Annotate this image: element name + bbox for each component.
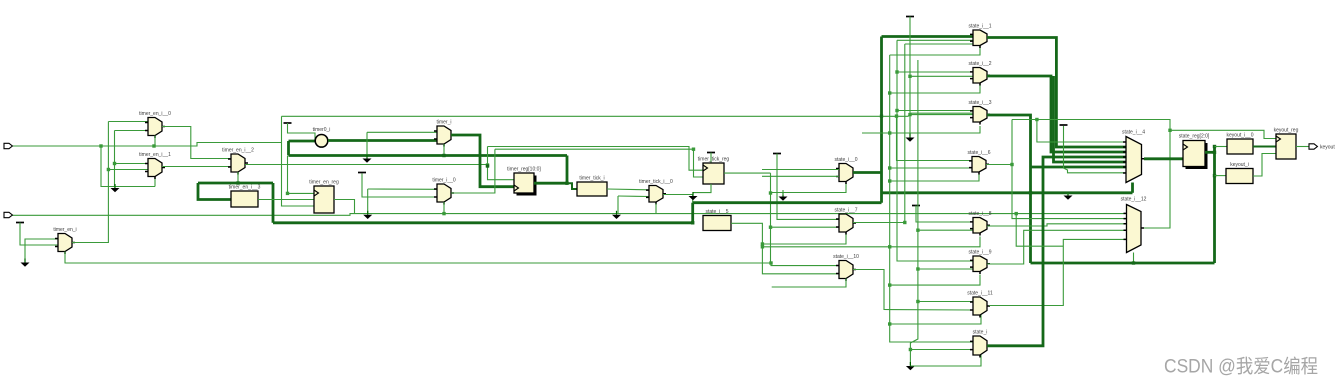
wire net tick0 out (663, 195, 693, 203)
wire bus y203 (693, 201, 882, 204)
wire net s0 p2 (762, 175, 839, 177)
wire net y119 (1012, 120, 1170, 131)
mux state_i__9 (968, 250, 991, 275)
wire net timeri0 sel (443, 202, 445, 214)
wire net s2 sel (890, 84, 980, 93)
wire net s4 thin p0 (1037, 120, 1126, 143)
wire net mux1 out (162, 166, 231, 168)
wire net s1 sel (890, 45, 980, 55)
wire bus k0 out (1253, 146, 1276, 148)
junction sregout (1213, 151, 1216, 154)
wire net treg fb y149 (495, 149, 703, 177)
wire bus y193 sel4 (1131, 183, 1134, 193)
wire net sel timer_en y263 (65, 262, 772, 264)
wire net tickreg bot (693, 184, 711, 195)
junction clk-x1016 (1015, 212, 1018, 215)
wire bus en3 loop left (198, 183, 231, 200)
constant tie-off t4 (773, 153, 781, 155)
junction y116-x881 (880, 114, 883, 117)
wire net t6 stem (916, 206, 973, 223)
constant tie-off t2 (284, 122, 292, 124)
wire net s9 sel (890, 275, 980, 286)
wire net s3 p1 (897, 110, 973, 112)
register timer_tick_i (577, 176, 607, 197)
junction vA168 (888, 166, 891, 169)
svg-text:timer_en_i: timer_en_i (53, 227, 76, 233)
ground g4 (363, 211, 372, 219)
register timer_en_reg (309, 180, 339, 214)
wire net s6 p1 riser (897, 116, 973, 160)
ground g1 (111, 184, 120, 192)
svg-text:timer_tick_reg: timer_tick_reg (698, 157, 730, 163)
wire net v367b (367, 189, 369, 214)
port output keyout (1309, 144, 1335, 151)
wire bus y36 to s1 (882, 35, 974, 38)
wire bus main y223 (273, 221, 693, 224)
constant tie-off t1 (16, 222, 24, 224)
wire net tick p2 drop (617, 196, 619, 214)
wire bus timer0 out (328, 139, 437, 142)
junction vD269 (916, 267, 919, 270)
junction din1-x154 (152, 144, 155, 147)
svg-text:state_i__5: state_i__5 (705, 209, 728, 215)
wire bus y263 right (1031, 262, 1215, 265)
svg-text:keyout_i__0: keyout_i__0 (1227, 133, 1254, 139)
mux state_i__3 (968, 100, 991, 125)
ground g7 (779, 193, 788, 201)
wire net tickreg out (724, 172, 771, 174)
ground g9 (906, 362, 915, 370)
wire net v1170 (1141, 130, 1170, 228)
wire net s9 out (987, 230, 1126, 264)
wire net s11 p1 (918, 301, 973, 303)
junction v770-227 (769, 226, 772, 229)
wire net enreg p1 riser (288, 156, 315, 193)
svg-text:state_i__0: state_i__0 (834, 157, 857, 163)
wire net s8 out (987, 224, 1126, 226)
junction y116-x896 (895, 114, 898, 117)
wire bus timer0 left (289, 140, 316, 143)
wire net en p2 elbow (115, 130, 149, 132)
wire net k1 in (1215, 175, 1227, 177)
wire bus en3 loop top (198, 182, 273, 185)
junction b193x1030 (1029, 191, 1032, 194)
junction vA181 (888, 179, 891, 182)
wire net vA x889 (890, 55, 973, 342)
junction vA326 (888, 322, 891, 325)
junction vA285 (888, 283, 891, 286)
junction v762-263 (769, 261, 772, 264)
wire net s7 sel (762, 233, 846, 245)
wire bus s0 out (853, 171, 882, 174)
junction enregp1 (286, 192, 289, 195)
wire net s11 sel (890, 314, 981, 324)
wire net en out (72, 242, 108, 244)
junction y119-x1036 (1035, 118, 1038, 121)
port input din1 (4, 143, 12, 148)
svg-text:state_i__3: state_i__3 (968, 100, 991, 106)
wire bus s2 out (987, 76, 1126, 152)
wire net v770 (770, 173, 772, 263)
register keyout_i (1226, 162, 1253, 184)
wire net mux1 sel (154, 176, 156, 187)
ground g5 (612, 211, 621, 219)
junction vA246 (888, 245, 891, 248)
wire bus v692 (691, 203, 694, 223)
wire net s8 p2 (918, 229, 973, 231)
wire net s5 out (731, 223, 839, 273)
junction t0sel (442, 212, 445, 215)
ground g3 (363, 155, 372, 163)
wire net keyout (1296, 146, 1309, 148)
wire net tick out (607, 188, 649, 191)
wire net s10 sel (772, 279, 846, 288)
mux timer_tick_i__0 (639, 179, 673, 205)
mux state_i__11 (967, 291, 993, 318)
register keyout_i__0 (1227, 133, 1254, 155)
junction vD301 (916, 300, 919, 303)
junction vA130 (888, 131, 891, 134)
wire net s8 sel (762, 237, 980, 247)
svg-text:keyout: keyout (1320, 145, 1335, 151)
junction vB72 (895, 70, 898, 73)
wire net s12 sel (1133, 253, 1135, 264)
svg-text:timer_en_i__1: timer_en_i__1 (139, 152, 171, 158)
wire net mux0 sel (154, 136, 156, 147)
register keyout_reg (1274, 128, 1299, 160)
svg-text:state_i__12: state_i__12 (1121, 197, 1147, 203)
ground g2 (21, 259, 30, 267)
wire net treg fb v487 (488, 147, 515, 180)
wire bus s2 out branch (1054, 76, 1127, 162)
wire net timer0 top y116 (282, 113, 974, 116)
wire net en p1 (25, 239, 58, 262)
mux state_i__6 (967, 150, 990, 175)
wire net s6 out (986, 164, 1012, 166)
ground g8 (906, 134, 915, 142)
wire bus y155 (289, 154, 568, 157)
wire net s7 p2 (771, 226, 840, 228)
svg-text:state_i__6: state_i__6 (967, 150, 990, 156)
constant tie-off t8 (358, 172, 366, 174)
wire net t7 stem (1064, 126, 1127, 173)
register timer_reg[10:0] (507, 167, 541, 196)
junction k1in (1213, 174, 1216, 177)
wire net s2 p1 (897, 71, 973, 73)
wire net clk branch v1016 (1016, 214, 1063, 247)
wire net y130 right (1170, 130, 1276, 138)
wire net vB x897 (897, 40, 973, 261)
svg-text:state_i__8: state_i__8 (968, 211, 991, 217)
svg-text:timer_en_i__2: timer_en_i__2 (222, 148, 254, 154)
wire net s7 out (853, 222, 905, 224)
wire net en sel (64, 252, 66, 264)
svg-text:timer_i: timer_i (436, 120, 451, 126)
wire net en fb riser x108 (107, 122, 109, 244)
wire net s2 p2 (910, 75, 973, 77)
junction vA93 (888, 91, 891, 94)
wire bus v881 (880, 37, 883, 203)
ground g6 (689, 192, 698, 200)
mux timer_i (434, 120, 454, 147)
wire net g7 stem (782, 190, 784, 195)
junction vB110 (895, 109, 898, 112)
wire net y189 (368, 188, 437, 190)
wire net en fb top elbow (108, 121, 148, 123)
wire net vC x910 (909, 17, 911, 137)
svg-text:state_i__7: state_i__7 (834, 208, 857, 214)
register timer_tick_reg (698, 157, 730, 185)
junction din1-x101 (99, 144, 102, 147)
wire net vD x917 (910, 60, 918, 366)
wire bus s1 out (987, 38, 1126, 148)
wire net s11 out (989, 239, 1126, 305)
wire net t2 stem (288, 123, 316, 141)
junction tregfb (486, 164, 489, 167)
svg-text:timer_i__0: timer_i__0 (432, 178, 456, 184)
svg-text:timer_en_i__3: timer_en_i__3 (229, 185, 261, 191)
svg-text:state_i__11: state_i__11 (967, 291, 993, 297)
mux state_i (970, 330, 990, 358)
wire net timeri p1 (367, 131, 437, 133)
mux state_i__10 (833, 254, 859, 281)
wire net mux1 p1 (115, 163, 149, 165)
wire net sel4 gnd (1067, 193, 1069, 195)
junction v770-193 (769, 191, 772, 194)
svg-text:timer_tick_i: timer_tick_i (579, 176, 604, 182)
svg-text:timer_reg[10:0]: timer_reg[10:0] (507, 167, 541, 173)
constant tie-off t5 (906, 16, 914, 18)
svg-text:keyout_i: keyout_i (1230, 162, 1249, 168)
wire net mux2 out y164 (245, 164, 488, 166)
junction tregout (565, 182, 568, 185)
junction vC76 (908, 75, 911, 78)
wire bus s3 out (987, 115, 1031, 263)
wire net din1 down x282 (282, 143, 315, 207)
wire net s3 p2 (910, 114, 973, 116)
junction s5in (691, 221, 694, 224)
wire net s3 sel (862, 126, 980, 133)
wire net din1 horizontal (12, 143, 282, 147)
wire net treg to tick (567, 183, 577, 189)
svg-text:state_i__2: state_i__2 (968, 61, 991, 67)
constant tie-off t6 (912, 205, 920, 207)
junction mux2out-end (486, 163, 489, 166)
wire net k1 out (1253, 154, 1276, 177)
svg-text:timer_en_reg: timer_en_reg (309, 180, 339, 186)
junction vD349 (909, 348, 912, 351)
mux state_i__8 (968, 211, 991, 236)
wire bus y155 drop x567 (566, 156, 569, 184)
wire net vE top elbow (905, 43, 973, 45)
junction vD230 (916, 229, 919, 232)
mux state_i__4 (1122, 130, 1145, 183)
wire net en3 out (258, 199, 314, 201)
mux timer_en_i__2 (222, 148, 254, 175)
wire net s9 p2 (918, 268, 973, 270)
constant tie-off t3 (707, 152, 715, 154)
svg-text:state_i__1: state_i__1 (968, 24, 991, 30)
wire net s6 p2 (890, 167, 972, 169)
svg-text:state_i__10: state_i__10 (833, 254, 859, 260)
wire net mux2 sel (237, 172, 239, 183)
wire net timeri0 out (451, 149, 495, 193)
wire net s10 p1 (771, 263, 839, 266)
junction v1170top (1168, 129, 1171, 132)
mux state_i__12 (1121, 197, 1147, 253)
wire net s10 out (853, 270, 973, 311)
register state_i__5 (703, 209, 731, 231)
wire bus v1214 (1213, 146, 1216, 264)
buffer timer0_i (313, 127, 331, 147)
wire bus timer0 drop (287, 141, 290, 156)
wire net en p2 riser x114 (114, 131, 116, 188)
wire net mux1 p2 (108, 169, 148, 171)
wire net t4 stem (777, 154, 839, 220)
mux state_i__0 (834, 157, 857, 184)
wire net din1 riser x282 (281, 116, 283, 142)
wire net treg fb y146 (488, 147, 704, 171)
wire bus en3 right x273 (272, 183, 275, 223)
wire bus s3 elbow (1031, 166, 1127, 169)
wire net clk y214 (11, 214, 1126, 216)
wire net tick p2 (618, 195, 649, 198)
svg-text:state_reg[2:0]: state_reg[2:0] (1179, 134, 1210, 140)
wire net t3 stem (710, 153, 712, 164)
junction k0in (1213, 145, 1216, 148)
svg-text:keyout_reg: keyout_reg (1274, 128, 1299, 134)
register state_reg[2:0] (1179, 134, 1210, 170)
mux timer_i__0 (432, 178, 456, 205)
junction mux2sel (236, 181, 239, 184)
mux state_i__7 (834, 208, 857, 235)
svg-text:timer_en_i__0: timer_en_i__0 (139, 111, 171, 117)
junction timerisel (442, 154, 445, 157)
junction v762-244 (761, 242, 764, 245)
port input din2 (4, 212, 12, 217)
wire net timeri p1 gnd drop (366, 132, 368, 157)
junction v762-246 (761, 245, 764, 248)
wire net s0 p1 (762, 169, 839, 171)
svg-text:CSDN @我爱C编程: CSDN @我爱C编程 (1164, 356, 1318, 378)
wire bus s4 out (1144, 157, 1183, 160)
svg-text:timer0_i: timer0_i (313, 127, 331, 133)
junction tickregp2 (692, 148, 695, 151)
svg-text:state_i__4: state_i__4 (1122, 130, 1145, 136)
mux timer_en_i (53, 227, 76, 254)
junction v1012-164 (1010, 163, 1013, 166)
wire net k0 in (1215, 146, 1228, 148)
junction mux1p2 (107, 168, 110, 171)
wire net enreg out (334, 200, 355, 214)
mux state_i__2 (968, 61, 991, 86)
junction s12sel (1132, 261, 1135, 264)
junction vC114 (908, 113, 911, 116)
mux timer_en_i__0 (139, 111, 171, 138)
wire net vE x904 (904, 44, 906, 223)
wire bus timeri out (451, 135, 514, 187)
wire net sel0 left (771, 183, 847, 193)
wire net s6 sel (890, 174, 979, 182)
wire net tick0 sel (655, 204, 657, 214)
wire bus y193 (882, 191, 1133, 194)
wire bus si out (987, 157, 1126, 346)
wire net mux0 out (162, 127, 231, 159)
junction vE222 (903, 221, 906, 224)
svg-text:timer_tick_i__0: timer_tick_i__0 (639, 179, 673, 185)
wire net v1012 (1012, 120, 1126, 219)
wire net t8 stem (362, 174, 437, 198)
junction mux1p1 (113, 162, 116, 165)
mux state_i__1 (968, 24, 991, 49)
wire net t1 stem (20, 223, 58, 246)
register timer_en_i__3 (229, 185, 261, 208)
wire bus treg out (534, 182, 567, 185)
wire net si p2 (910, 349, 973, 351)
wire net gnd branch x101 (101, 146, 155, 187)
svg-text:state_i__9: state_i__9 (968, 250, 991, 256)
ground g10 (1064, 194, 1073, 200)
svg-text:state_i: state_i (973, 330, 988, 336)
wire net si sel (910, 355, 981, 366)
wire bus sreg out (1205, 151, 1215, 154)
wire net vB top elbow (897, 39, 973, 41)
mux timer_en_i__1 (139, 152, 171, 179)
wire net timeri sel (443, 144, 445, 156)
constant tie-off t7 (1060, 124, 1068, 126)
